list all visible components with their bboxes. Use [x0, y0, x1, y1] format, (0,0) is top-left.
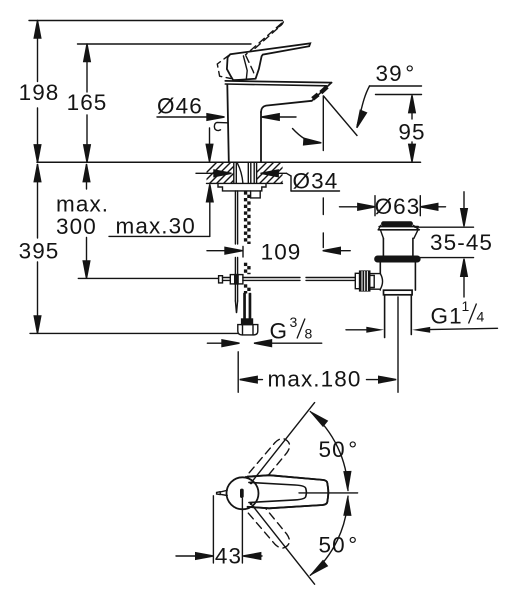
dimension max.30 lower arrow and leader — [207, 184, 214, 202]
handle lever top view outer — [248, 475, 329, 508]
drain: Ø63 dimension — [374, 196, 376, 216]
dimension Ø34 arrows and label frame — [196, 172, 229, 174]
slot dark — [240, 489, 244, 498]
dimension 35-45 — [463, 192, 465, 214]
mounting nut below deck — [218, 184, 266, 191]
dimension 43 — [212, 496, 214, 563]
dimension G3/8 arrows — [207, 342, 232, 344]
svg-text:109: 109 — [261, 240, 302, 265]
centerline — [299, 492, 358, 494]
drain gasket collar (dark) — [375, 256, 420, 262]
handle lever raised (dashed) — [217, 23, 281, 78]
vertical reference at spout tip — [322, 96, 324, 151]
dimension max.300 vertical line — [86, 165, 88, 190]
svg-text:max.: max. — [56, 192, 109, 217]
svg-text:G: G — [270, 319, 289, 344]
svg-text:43: 43 — [215, 544, 242, 569]
G3/8 nut — [238, 325, 258, 335]
165 reference line — [78, 43, 252, 45]
max.300 reference line to pull rod — [78, 277, 218, 279]
spout underside — [261, 101, 312, 112]
svg-text:G1: G1 — [431, 304, 463, 329]
svg-text:8: 8 — [305, 326, 313, 342]
dimension 95 vertical line — [411, 97, 413, 119]
svg-text:165: 165 — [67, 90, 108, 115]
deck hatching left — [195, 162, 252, 184]
svg-text:395: 395 — [19, 239, 60, 264]
svg-text:Ø63: Ø63 — [375, 194, 421, 219]
95 reference line — [376, 94, 422, 96]
small hook on body left — [214, 122, 227, 130]
svg-text:35-45: 35-45 — [430, 230, 493, 255]
svg-text:1: 1 — [462, 298, 470, 314]
drain neck — [380, 230, 383, 239]
G1 1/4 pipe left arrow — [346, 329, 368, 331]
dimension Ø46 leader and arrows — [157, 116, 222, 118]
dashed rotated levers (drawn under solid lever) — [241, 435, 293, 551]
drain plug cap (dark) — [382, 222, 412, 225]
svg-text:50°: 50° — [319, 437, 359, 462]
dimension 109 — [242, 247, 244, 258]
svg-text:max.30: max.30 — [116, 214, 196, 239]
svg-text:95: 95 — [398, 120, 425, 145]
drain lower body — [379, 262, 381, 274]
dimension 165 vertical line — [86, 44, 88, 92]
svg-text:Ø46: Ø46 — [157, 94, 203, 119]
tailpipe — [384, 295, 386, 338]
pull rod cross fitting — [219, 276, 223, 283]
pop-up rod below deck — [234, 191, 236, 244]
dimension max.30 upper arrow — [209, 128, 211, 150]
checkered braided hose — [244, 191, 251, 293]
handle lever solid — [227, 43, 310, 80]
395 reference line to supply nut bottom — [30, 332, 238, 334]
faucet body outline — [227, 85, 229, 162]
svg-text:max.180: max.180 — [268, 367, 362, 392]
109 extension line below deck — [322, 198, 324, 215]
hose collar dark — [242, 319, 253, 325]
drain side port — [361, 273, 380, 275]
svg-text:39°: 39° — [376, 61, 416, 86]
spout end face — [312, 83, 332, 101]
spray angle line — [324, 96, 358, 136]
svg-text:4: 4 — [477, 309, 485, 325]
deck bottom line — [207, 182, 283, 184]
svg-text:198: 198 — [19, 80, 60, 105]
small angle arc — [293, 129, 317, 143]
svg-text:300: 300 — [56, 214, 97, 239]
svg-text:Ø34: Ø34 — [293, 169, 339, 194]
top reference line (198 max height) — [29, 20, 283, 22]
tailpipe coupling ring — [384, 290, 413, 295]
50 degree reference lines — [253, 403, 315, 481]
deck top line — [37, 161, 421, 163]
50 degree arcs — [310, 412, 348, 491]
svg-text:3: 3 — [290, 314, 298, 330]
left tab — [220, 490, 227, 495]
drain flange — [379, 226, 418, 228]
aerator (dark) — [321, 87, 327, 93]
svg-text:50°: 50° — [319, 533, 359, 558]
braided hose lower tube — [243, 294, 245, 320]
39 degree angle callout — [370, 85, 422, 87]
pivot circle — [227, 477, 259, 509]
deck hatching right — [245, 162, 302, 184]
dimension 395 vertical line — [37, 165, 39, 239]
dimension 198 vertical line — [37, 21, 39, 82]
drain upper body — [382, 238, 384, 256]
knurled knob — [360, 271, 370, 291]
threaded shank through deck — [233, 163, 235, 184]
dimension max.180 — [237, 352, 239, 393]
G1 1/4 leader with long arrowhead — [428, 328, 498, 329]
inner contour — [249, 482, 307, 502]
